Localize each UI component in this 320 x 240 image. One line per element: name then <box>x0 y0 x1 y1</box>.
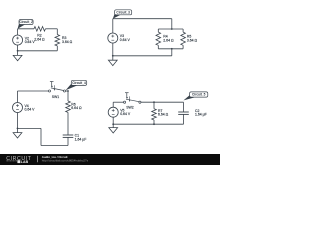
svg-text:Circuit_2: Circuit_2 <box>19 20 33 24</box>
svg-text:0.64 V: 0.64 V <box>25 107 36 111</box>
svg-text:SW1: SW1 <box>52 95 60 99</box>
svg-text:http://circuitlab.com/c8654hub: http://circuitlab.com/c8654hubbu27s <box>42 158 89 162</box>
svg-text:2.64 Ω: 2.64 Ω <box>163 39 174 43</box>
svg-text:1.64 µF: 1.64 µF <box>75 137 87 141</box>
svg-text:LAB: LAB <box>21 160 29 164</box>
svg-text:3.64 Ω: 3.64 Ω <box>62 40 73 44</box>
svg-text:0.64 V: 0.64 V <box>120 112 131 116</box>
svg-text:Circuit_5: Circuit_5 <box>192 93 206 97</box>
svg-text:Circuit_4: Circuit_4 <box>72 81 86 85</box>
svg-text:2.64 Ω: 2.64 Ω <box>34 38 45 42</box>
svg-text:0.64 V: 0.64 V <box>120 38 131 42</box>
svg-text:SW2: SW2 <box>126 106 134 110</box>
svg-text:1.64 µF: 1.64 µF <box>195 112 207 116</box>
svg-text:6.64 Ω: 6.64 Ω <box>158 113 169 117</box>
svg-text:Circuit_3: Circuit_3 <box>116 10 130 14</box>
svg-text:6.64 Ω: 6.64 Ω <box>71 106 82 110</box>
svg-text:3.64 Ω: 3.64 Ω <box>187 39 198 43</box>
